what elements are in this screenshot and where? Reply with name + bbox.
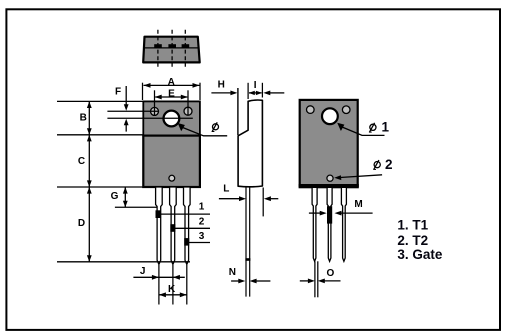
svg-text:M: M	[354, 199, 362, 210]
extension line body bottom	[57, 186, 143, 188]
top view centerline 2	[171, 30, 173, 69]
back big hole	[322, 108, 338, 124]
small hole left	[151, 107, 159, 115]
extension line lead tips	[57, 261, 190, 263]
dimension D	[78, 187, 92, 262]
back small hole left	[307, 106, 315, 114]
dimension L	[219, 184, 278, 217]
front bottom dimple	[169, 175, 175, 181]
leg center extension 3	[186, 265, 188, 305]
top view package body	[143, 37, 200, 63]
dimension M	[309, 199, 373, 216]
svg-text:C: C	[78, 156, 85, 167]
big mounting hole	[164, 111, 180, 127]
svg-text:I: I	[254, 80, 257, 91]
side lead joint	[245, 258, 250, 261]
pin 2 callout	[172, 216, 210, 228]
svg-text:3. Gate: 3. Gate	[397, 247, 443, 262]
svg-text:L: L	[223, 184, 229, 195]
front leg 2	[170, 187, 177, 264]
svg-text:F: F	[115, 86, 121, 97]
svg-text:1: 1	[199, 201, 205, 212]
side body profile	[238, 100, 262, 187]
svg-text:H: H	[218, 80, 225, 91]
back body bottom bar	[299, 184, 359, 187]
pin function legend	[397, 218, 443, 263]
dimension G	[111, 187, 157, 207]
leg center extension 1	[158, 265, 160, 305]
extension line tab/body	[57, 134, 143, 136]
svg-text:B: B	[80, 112, 87, 123]
tab back surface line	[237, 88, 239, 135]
leg 1 plated section	[156, 210, 161, 218]
phi 1 callout	[337, 119, 389, 135]
svg-text:2: 2	[385, 157, 393, 172]
svg-text:A: A	[168, 77, 175, 88]
svg-text:1: 1	[382, 119, 390, 134]
leg 3 plated section	[184, 238, 189, 246]
svg-text:D: D	[78, 218, 85, 229]
dimension B	[80, 101, 92, 134]
front leg 1	[156, 187, 163, 264]
svg-text:O: O	[327, 268, 335, 279]
dimension J	[133, 266, 184, 280]
phi label (front)	[178, 122, 228, 136]
back leg 3	[341, 187, 346, 261]
top view pin 3	[182, 44, 190, 48]
dimension F	[107, 86, 192, 132]
back leg 2	[327, 187, 332, 261]
dimension C	[78, 135, 92, 187]
top view pin 2	[168, 44, 176, 48]
front leg 3	[184, 187, 191, 264]
dimension K	[159, 284, 187, 297]
back small hole right	[342, 106, 350, 114]
svg-text:3: 3	[199, 231, 205, 242]
dimension O	[300, 268, 341, 283]
svg-text:2: 2	[199, 216, 205, 227]
svg-text:2. T2: 2. T2	[397, 233, 428, 248]
dimension E	[155, 88, 189, 115]
small hole right	[184, 107, 192, 115]
extension line top edge	[57, 100, 143, 102]
back middle leg plated section	[327, 206, 332, 223]
back bottom dimple	[327, 175, 333, 181]
svg-text:N: N	[229, 267, 236, 278]
pin 3 callout	[186, 231, 210, 243]
phi 2 callout	[334, 157, 392, 180]
front tab	[143, 101, 200, 135]
dimension A	[143, 77, 201, 100]
svg-text:1. T1: 1. T1	[397, 218, 428, 233]
top view pin 1	[154, 44, 162, 48]
back leg 1	[312, 187, 317, 261]
side lead	[246, 187, 250, 297]
leg center extension 2	[172, 265, 174, 305]
leg 2 plated section	[170, 224, 175, 232]
pin 1 callout	[158, 201, 210, 214]
top view parting line	[144, 47, 200, 49]
svg-text:J: J	[140, 266, 146, 277]
dimension H	[211, 80, 284, 96]
back body	[300, 100, 358, 187]
front body	[143, 136, 200, 187]
svg-text:K: K	[168, 284, 176, 295]
svg-text:G: G	[111, 191, 119, 202]
dimension N	[229, 267, 271, 283]
top view centerline 1	[157, 30, 159, 69]
dimension I	[248, 80, 262, 99]
svg-text:E: E	[168, 88, 175, 99]
back leg 1 extended lead	[315, 261, 318, 297]
top view centerline 3	[184, 30, 186, 69]
